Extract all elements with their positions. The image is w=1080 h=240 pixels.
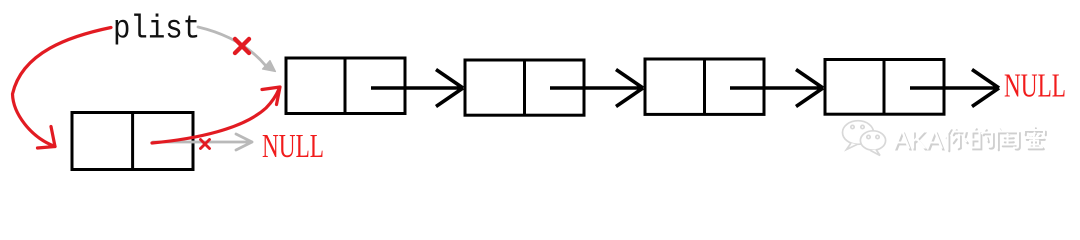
watermark chinese chars white face <box>945 127 1044 150</box>
chain node 4 box <box>825 60 944 115</box>
chain node 3 box <box>645 59 764 114</box>
old gray next pointer to NULL <box>153 134 252 150</box>
new first node box <box>72 113 193 170</box>
red next pointer from new node to first chain node <box>152 89 279 143</box>
chain node 4 divider <box>883 60 886 115</box>
svg-text:NULL: NULL <box>262 128 324 165</box>
next arrow node1 to node2 <box>371 70 463 107</box>
new first node divider <box>131 113 134 170</box>
chain node 2 box <box>465 60 584 115</box>
svg-text:AKA: AKA <box>893 127 943 155</box>
svg-text:plist: plist <box>113 11 200 48</box>
chain node 1 box <box>286 58 405 114</box>
old gray pointer arrow plist to first chain node <box>198 27 266 66</box>
svg-text:NULL: NULL <box>1004 67 1066 104</box>
gray arrowhead <box>263 61 276 72</box>
chain node 3 divider <box>703 59 706 114</box>
red arrow plist to new first node (lower-left box) <box>13 28 112 147</box>
next arrow node4 to NULL <box>910 70 999 107</box>
chain node 2 divider <box>523 60 526 115</box>
watermark icon: chat bubbles <box>843 121 886 156</box>
red arrowhead at lower-left box <box>38 127 56 149</box>
next arrow node3 to node4 <box>730 70 823 107</box>
next arrow node2 to node3 <box>550 70 643 107</box>
red arrowhead at first chain node <box>262 87 280 105</box>
watermark chinese chars shadow <box>947 128 1046 151</box>
chain node 1 divider <box>344 58 347 114</box>
red X mark on old pointer <box>235 39 249 53</box>
watermark group <box>843 121 1046 157</box>
small red x on old next pointer <box>201 140 210 149</box>
